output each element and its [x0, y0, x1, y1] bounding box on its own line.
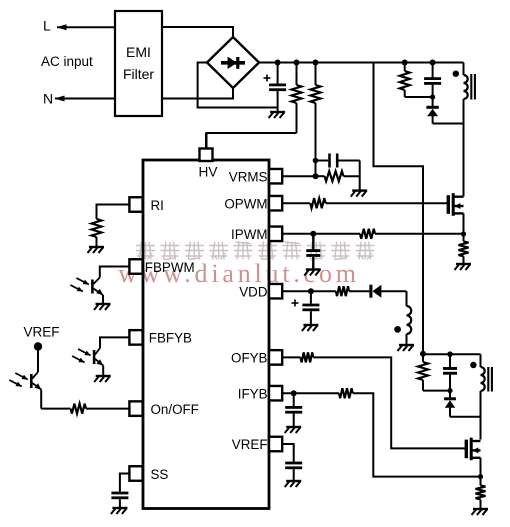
- svg-text:FBPWM: FBPWM: [145, 260, 195, 275]
- svg-text:HV: HV: [199, 164, 218, 179]
- svg-text:IPWM: IPWM: [231, 227, 267, 242]
- svg-text:VRMS: VRMS: [229, 169, 268, 184]
- svg-text:EMI: EMI: [126, 44, 151, 60]
- svg-text:OPWM: OPWM: [224, 196, 267, 211]
- svg-text:IFYB: IFYB: [238, 386, 268, 401]
- svg-text:Filter: Filter: [123, 66, 154, 82]
- svg-text:OFYB: OFYB: [231, 351, 268, 366]
- svg-text:On/OFF: On/OFF: [151, 402, 199, 417]
- svg-text:VDD: VDD: [239, 284, 268, 299]
- svg-text:VREF: VREF: [232, 437, 268, 452]
- svg-text:RI: RI: [151, 198, 164, 213]
- svg-text:FBFYB: FBFYB: [149, 331, 192, 346]
- svg-text:L: L: [43, 18, 51, 34]
- svg-text:N: N: [43, 91, 53, 107]
- svg-text:SS: SS: [151, 467, 169, 482]
- svg-text:VREF: VREF: [24, 325, 60, 340]
- svg-text:AC input: AC input: [41, 54, 93, 69]
